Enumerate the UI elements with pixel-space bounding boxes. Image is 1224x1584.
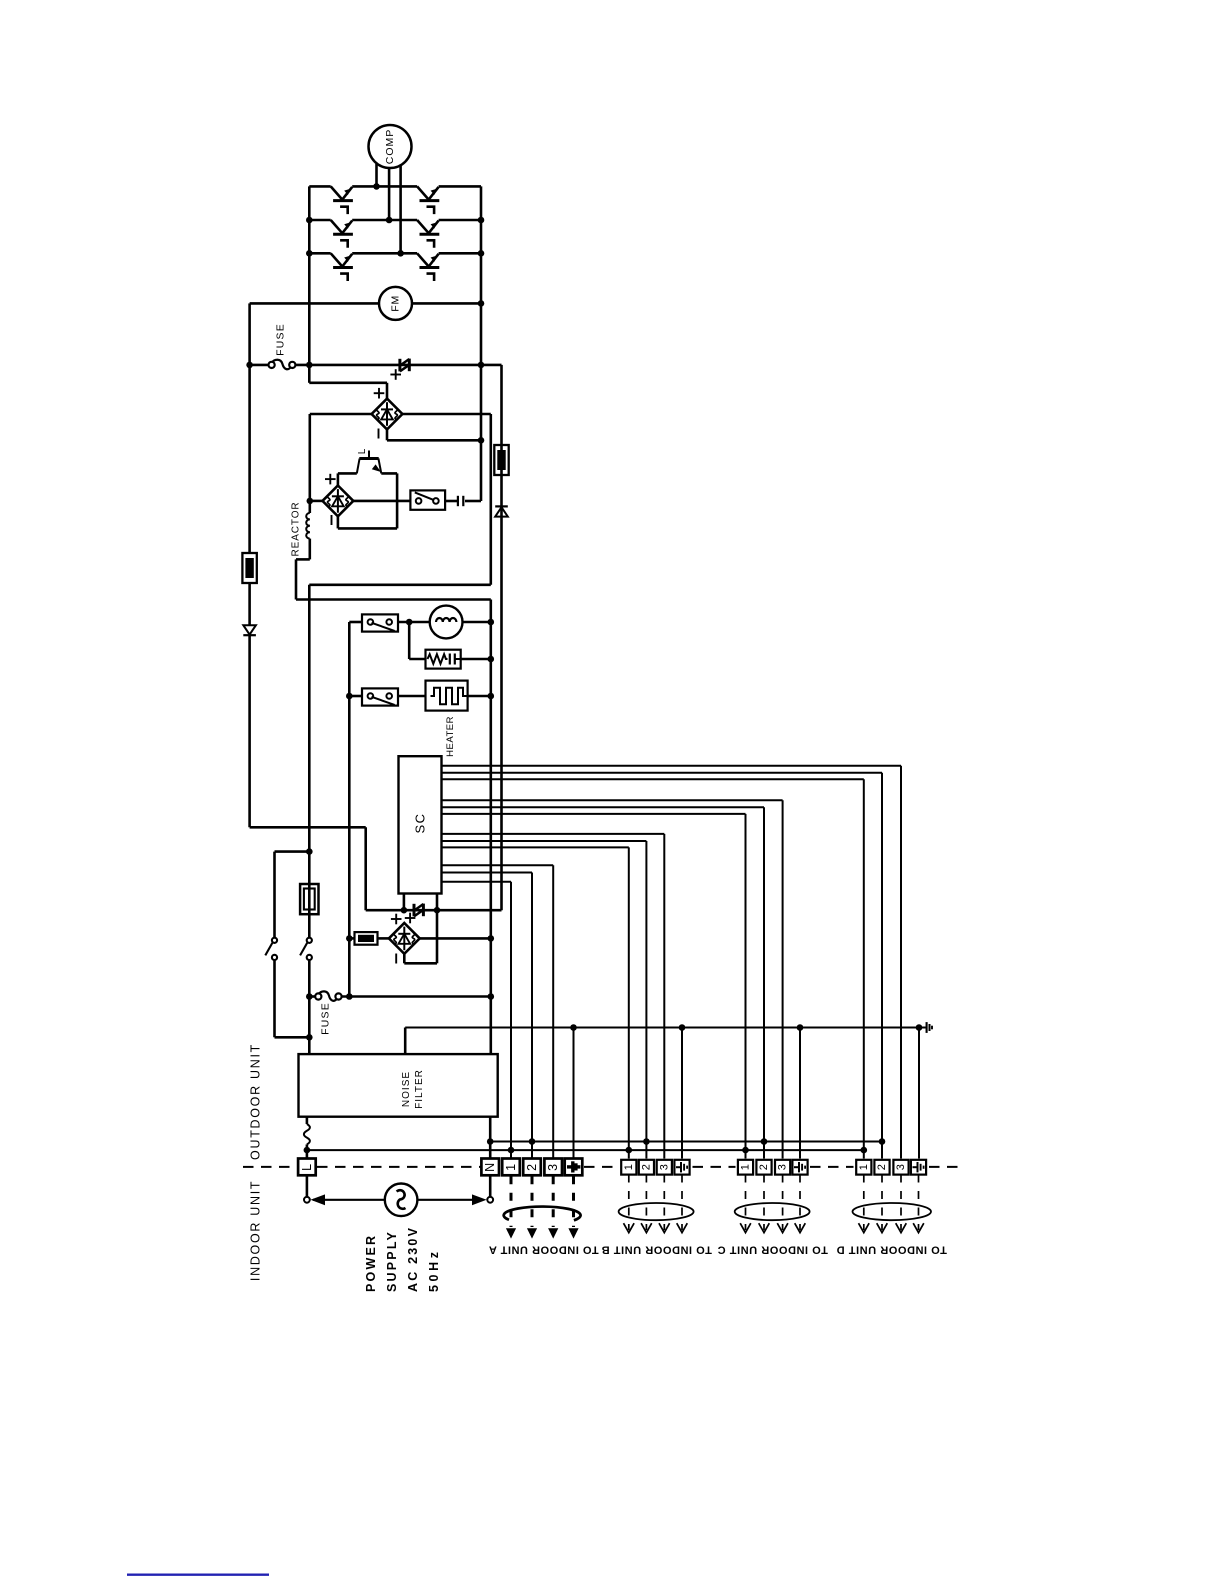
svg-text:TO INDOOR UNIT B: TO INDOOR UNIT B xyxy=(601,1243,712,1255)
svg-text:TO INDOOR UNIT D: TO INDOOR UNIT D xyxy=(836,1243,947,1255)
svg-text:TO INDOOR UNIT C: TO INDOOR UNIT C xyxy=(717,1243,828,1255)
svg-text:N: N xyxy=(483,1163,497,1172)
svg-text:2: 2 xyxy=(758,1164,770,1170)
svg-text:50Hz: 50Hz xyxy=(427,1248,441,1292)
svg-text:3: 3 xyxy=(546,1164,560,1171)
svg-text:SUPPLY: SUPPLY xyxy=(385,1230,399,1292)
svg-text:FILTER: FILTER xyxy=(414,1069,425,1109)
svg-text:COMP: COMP xyxy=(384,129,396,165)
svg-text:OUTDOOR UNIT: OUTDOOR UNIT xyxy=(248,1043,262,1160)
svg-text:HEATER: HEATER xyxy=(445,716,456,757)
svg-text:L: L xyxy=(300,1164,314,1171)
svg-text:SC: SC xyxy=(413,812,428,833)
svg-text:2: 2 xyxy=(525,1164,539,1171)
svg-text:L: L xyxy=(357,448,368,454)
svg-text:1: 1 xyxy=(858,1164,870,1170)
svg-text:2: 2 xyxy=(640,1164,652,1170)
svg-text:REACTOR: REACTOR xyxy=(290,501,301,556)
svg-text:FM: FM xyxy=(390,295,402,312)
svg-text:3: 3 xyxy=(895,1164,907,1170)
svg-text:3: 3 xyxy=(777,1164,789,1170)
svg-text:3: 3 xyxy=(658,1164,670,1170)
svg-text:AC 230V: AC 230V xyxy=(406,1226,420,1292)
svg-text:1: 1 xyxy=(740,1164,752,1170)
svg-text:INDOOR UNIT: INDOOR UNIT xyxy=(248,1180,262,1281)
svg-text:NOISE: NOISE xyxy=(401,1071,412,1107)
svg-text:POWER: POWER xyxy=(364,1234,378,1292)
svg-text:1: 1 xyxy=(623,1164,635,1170)
svg-text:2: 2 xyxy=(876,1164,888,1170)
svg-text:FUSE: FUSE xyxy=(320,1002,332,1035)
svg-text:1: 1 xyxy=(504,1164,518,1171)
svg-text:FUSE: FUSE xyxy=(275,323,287,356)
svg-text:TO INDOOR UNIT A: TO INDOOR UNIT A xyxy=(488,1243,598,1255)
